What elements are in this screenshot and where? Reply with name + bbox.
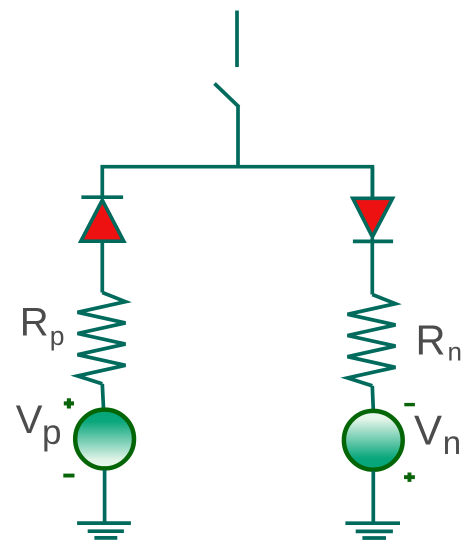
svg-text:R: R — [20, 301, 49, 345]
ground — [77, 523, 131, 538]
minus terminal of V_n — [404, 403, 415, 406]
plus terminal of V_p — [64, 398, 74, 408]
voltage source V_p — [75, 410, 134, 469]
wire — [102, 384, 103, 409]
wire — [371, 471, 375, 523]
voltage source V_n — [344, 411, 403, 470]
label V_p — [16, 398, 62, 452]
svg-text:V: V — [16, 398, 43, 442]
resistor R_p — [78, 293, 126, 384]
svg-text:p: p — [42, 413, 61, 452]
wire — [100, 241, 104, 293]
wire — [372, 386, 373, 410]
wire — [103, 470, 107, 523]
svg-text:p: p — [50, 321, 65, 351]
label V_n — [414, 406, 461, 461]
label R_n — [416, 317, 462, 367]
wire bus — [102, 167, 372, 196]
resistor R_n — [348, 295, 396, 386]
wire — [371, 167, 375, 197]
ground — [345, 523, 400, 538]
minus terminal of V_p — [63, 474, 74, 478]
diode D1 — [81, 197, 124, 241]
svg-text:n: n — [448, 337, 462, 367]
plus terminal of V_n — [404, 473, 415, 482]
svg-text:V: V — [414, 406, 442, 453]
label R_p — [20, 301, 65, 351]
svg-text:n: n — [443, 424, 461, 461]
switch S1 — [215, 11, 240, 167]
diode D2 — [353, 198, 393, 241]
wire — [370, 238, 374, 295]
svg-text:R: R — [416, 317, 446, 364]
